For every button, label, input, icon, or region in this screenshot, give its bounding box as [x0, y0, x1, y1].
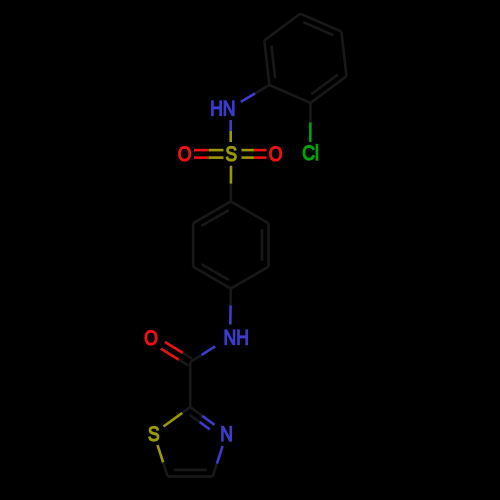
svg-text:O: O [178, 142, 192, 166]
bond S-C2 thiazole [182, 407, 190, 413]
bond C1-N sulfonamide [255, 85, 269, 93]
double bond inner line A4=A5 [202, 264, 229, 280]
double bond inner line A6=A1 [202, 210, 229, 226]
double bond inner line C2=C3 [311, 75, 337, 95]
bond C5-S thiazole [163, 462, 168, 476]
bond S-C middle ring [230, 166, 233, 184]
svg-text:S: S [225, 142, 237, 166]
bond C2-C3 top ring [311, 76, 347, 103]
svg-text:NH: NH [223, 326, 248, 350]
bond A6-A1 middle ring [193, 202, 231, 224]
bond A4-A5 middle ring [193, 267, 231, 289]
bond N-C carbonyl [190, 355, 201, 362]
double bond S=O right [242, 149, 254, 152]
double bond inner line C4=C5 [303, 22, 333, 35]
svg-text:Cl: Cl [302, 141, 319, 165]
bond A5-A6 middle ring [192, 223, 195, 267]
double bond C2=N thiazole main line [190, 407, 202, 416]
double bond C4=C5 thiazole main line [168, 475, 213, 478]
svg-text:O: O [269, 142, 283, 166]
double bond S=O left [194, 149, 209, 152]
bond C2-Cl chlorine [309, 103, 312, 123]
double bond inner line C6=C1 [271, 46, 275, 79]
bond C5-C6 top ring [264, 14, 300, 41]
svg-text:HN: HN [210, 97, 235, 121]
bond A1-A2 middle ring [231, 202, 269, 224]
bond N-S sulfonyl [229, 120, 232, 131]
bond C1-C2 top ring [269, 85, 310, 103]
bond C3-C4 top ring [341, 32, 346, 77]
bond A3-A4 middle ring [231, 267, 269, 289]
bond C-N amide [229, 289, 232, 306]
svg-text:S: S [148, 422, 160, 446]
bond C4-C5 top ring [300, 14, 341, 32]
bond A2-A3 middle ring [267, 223, 270, 267]
svg-text:N: N [220, 422, 233, 446]
bond N-C4 thiazole [213, 464, 217, 477]
double bond inner line A2=A3 [261, 229, 264, 261]
bond C-C2 thiazole link [189, 362, 192, 407]
double bond C2=N thiazole inner line [190, 415, 200, 422]
double bond C4=C5 thiazole inner line [174, 469, 207, 472]
bond C6-C1 top ring [264, 40, 269, 85]
svg-text:O: O [144, 327, 158, 351]
double bond C=O carbonyl [183, 353, 193, 359]
